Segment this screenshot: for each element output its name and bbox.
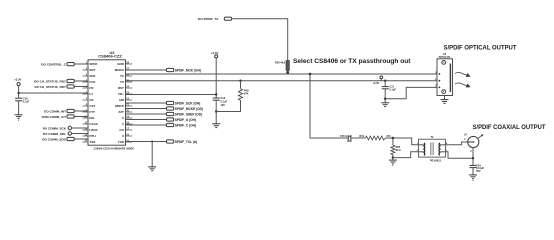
IC U2 CS8406 body bbox=[88, 50, 134, 151]
svg-text:GND: GND bbox=[117, 62, 125, 66]
svg-text:DNI: DNI bbox=[347, 140, 352, 143]
wire bbox=[74, 110, 88, 112]
svg-text:374: 374 bbox=[386, 135, 391, 138]
wire bbox=[74, 116, 88, 118]
connector SPDIF_SCK bbox=[126, 101, 201, 105]
wire bbox=[72, 133, 89, 135]
svg-text:LRCK: LRCK bbox=[89, 128, 98, 132]
resistor R54 374 series bbox=[359, 135, 391, 140]
connector RX CH_STATUS_RDY bbox=[34, 85, 74, 89]
U2 left pin numbers bbox=[84, 62, 87, 143]
wire R49 bottom to node B bbox=[216, 100, 240, 111]
svg-text:HM: HM bbox=[119, 98, 124, 102]
wire bbox=[72, 127, 89, 129]
wire bbox=[74, 86, 88, 88]
wire R49 top lead bbox=[240, 81, 242, 89]
svg-text:DO COMM_INT: DO COMM_INT bbox=[44, 109, 66, 113]
ground coax divider bbox=[389, 160, 397, 166]
wire main TX net bbox=[126, 73, 438, 75]
U4 pin numbers bbox=[435, 72, 437, 87]
wire U2 VD+ to node A bbox=[126, 94, 217, 96]
svg-text:DUM COMM_A/T: DUM COMM_A/T bbox=[42, 115, 67, 119]
wire U2 to R49 bbox=[126, 80, 438, 82]
node passthrough join bbox=[286, 71, 289, 74]
wire RCA shield down bbox=[472, 148, 474, 166]
node return join bbox=[384, 98, 386, 100]
connector SPDIF_C bbox=[126, 123, 196, 127]
svg-text:+3.3V: +3.3V bbox=[211, 51, 219, 55]
ground mid rail bbox=[212, 124, 220, 128]
svg-text:CALB: CALB bbox=[89, 122, 98, 126]
power +3.3V left rail bbox=[14, 77, 21, 85]
svg-text:SPDIF_SCK (OH): SPDIF_SCK (OH) bbox=[175, 101, 201, 105]
U2 right pin stubs bbox=[126, 64, 133, 142]
U2 right pin names bbox=[115, 62, 125, 144]
wire VL+ to U2 bbox=[19, 92, 88, 94]
svg-text:CS8406-CZZ: CS8406-CZZ bbox=[98, 54, 122, 59]
ground coax output bbox=[469, 175, 477, 181]
svg-text:TX: TX bbox=[120, 74, 124, 78]
wire U4 pin 2 return bbox=[385, 87, 437, 98]
connector SPDIF_SDEF bbox=[126, 112, 203, 116]
svg-text:0.1uF: 0.1uF bbox=[220, 100, 227, 104]
transformer T2 PE-65612 bbox=[417, 136, 448, 162]
ground left rail bbox=[15, 115, 23, 120]
capacitor C4 0.1uF bbox=[15, 98, 30, 115]
svg-text:SPDIF_C (OH): SPDIF_C (OH) bbox=[175, 123, 196, 127]
svg-text:Select CS8406 or TX passthroug: Select CS8406 or TX passthrough out bbox=[293, 58, 411, 65]
svg-text:+3.3V: +3.3V bbox=[373, 82, 380, 85]
svg-text:INA: INA bbox=[89, 116, 95, 120]
svg-text:0.1uF: 0.1uF bbox=[389, 89, 396, 92]
wire R55 to ground bbox=[392, 155, 394, 160]
svg-text:RX CH_STATUS_RDY: RX CH_STATUS_RDY bbox=[34, 85, 66, 89]
light emission arrows bbox=[455, 72, 470, 87]
connector SPDIF_MCKE bbox=[126, 107, 204, 111]
connector DO COMM_INT bbox=[44, 109, 74, 113]
node ground tap bbox=[151, 141, 153, 143]
node R49 tap bbox=[239, 80, 241, 82]
svg-text:SFR: SFR bbox=[89, 74, 96, 78]
wire down to R55 bbox=[392, 138, 394, 145]
connector SPDIF_MCK bbox=[126, 68, 201, 72]
node B resistor return bbox=[215, 110, 217, 112]
connector DO CH_STATUS_RDY bbox=[34, 79, 74, 83]
svg-text:ZZT: ZZT bbox=[118, 110, 124, 114]
U2 left pin stubs bbox=[82, 64, 88, 142]
svg-text:MCKO: MCKO bbox=[115, 68, 125, 72]
svg-text:DO COMM_SDO: DO COMM_SDO bbox=[42, 137, 66, 141]
U4 pin marks inside bbox=[439, 73, 441, 88]
svg-text:DO SPDIF_TX: DO SPDIF_TX bbox=[198, 17, 219, 21]
svg-text:90.9: 90.9 bbox=[396, 149, 401, 152]
wire bbox=[386, 137, 393, 139]
node TX branch to coax bbox=[309, 73, 312, 76]
svg-text:F1: F1 bbox=[89, 92, 93, 96]
wire mid rail down to node A bbox=[215, 58, 217, 98]
svg-text:CO: CO bbox=[119, 128, 124, 132]
capacitor C54 0.01uF bbox=[470, 164, 485, 175]
svg-text:R50 49.9: R50 49.9 bbox=[275, 62, 286, 65]
svg-text:DO CONTROL_C: DO CONTROL_C bbox=[41, 62, 67, 66]
ground optical bbox=[381, 103, 389, 107]
svg-text:+3.3V: +3.3V bbox=[14, 77, 21, 81]
U2 left pin names bbox=[89, 62, 98, 144]
svg-text:S/PDIF OPTICAL OUTPUT: S/PDIF OPTICAL OUTPUT bbox=[444, 44, 517, 51]
wire bbox=[351, 137, 366, 139]
svg-text:RTLI: RTLI bbox=[89, 134, 96, 138]
wire bbox=[74, 138, 88, 140]
node coax divider bbox=[392, 137, 395, 140]
svg-text:R54: R54 bbox=[359, 135, 364, 138]
svg-text:RST: RST bbox=[118, 86, 124, 90]
svg-text:SPI/O: SPI/O bbox=[89, 62, 98, 66]
node cap tap bbox=[384, 80, 386, 82]
svg-text:SPDIF_MCK (OH): SPDIF_MCK (OH) bbox=[175, 68, 201, 72]
capacitor C21 0.1uF bbox=[382, 81, 397, 103]
wire down to ground bbox=[151, 142, 153, 167]
svg-text:50V: 50V bbox=[476, 170, 481, 173]
resistor R50 0 ohm bbox=[275, 61, 289, 75]
wire bbox=[74, 80, 88, 82]
svg-text:PE-65612: PE-65612 bbox=[430, 160, 442, 163]
U2 right pin numbers bbox=[126, 62, 129, 143]
svg-text:TXB: TXB bbox=[89, 140, 96, 144]
svg-text:HMCK: HMCK bbox=[115, 104, 125, 108]
optical transmitter U4 TOTX147 bbox=[437, 53, 453, 96]
wire transformer to RCA bbox=[445, 142, 467, 145]
resistor R49 47K bbox=[238, 88, 249, 100]
svg-text:TX: TX bbox=[120, 80, 124, 84]
connector DO CONTROL_C bbox=[41, 62, 74, 66]
svg-text:VD+: VD+ bbox=[118, 92, 124, 96]
svg-text:DO CH_STATUS_RDY: DO CH_STATUS_RDY bbox=[34, 79, 67, 83]
wire U2 TXN out bbox=[126, 141, 167, 143]
power +3.3V optical bbox=[373, 76, 383, 85]
capacitor C16 0.1uF bbox=[213, 96, 228, 124]
connector DO SPDIF_TX passthrough input bbox=[198, 17, 232, 21]
svg-text:SPDIF_U (OH): SPDIF_U (OH) bbox=[175, 118, 196, 122]
wire to transformer primary bbox=[393, 138, 419, 145]
connector SPDIF_U bbox=[126, 118, 196, 122]
svg-text:RX COMM_SCK: RX COMM_SCK bbox=[43, 126, 67, 130]
node A bbox=[215, 93, 217, 95]
svg-text:X: X bbox=[122, 134, 124, 138]
svg-text:SPDIF_MCKE (OD): SPDIF_MCKE (OD) bbox=[175, 107, 203, 111]
ground U4 bbox=[441, 96, 449, 104]
svg-text:0.1uF: 0.1uF bbox=[23, 101, 30, 104]
svg-text:SPDIF_SDEF (OD): SPDIF_SDEF (OD) bbox=[175, 112, 202, 116]
wire passthrough down bbox=[231, 19, 288, 61]
svg-text:CXT: CXT bbox=[89, 104, 95, 108]
resistor R55 90.9 shunt bbox=[391, 145, 401, 155]
svg-text:RX COMM_SDL: RX COMM_SDL bbox=[43, 132, 66, 136]
svg-text:47K: 47K bbox=[244, 91, 249, 95]
svg-text:SPDIF_TXL (A): SPDIF_TXL (A) bbox=[175, 140, 197, 144]
capacitor C55 0.1uF series bbox=[340, 135, 352, 143]
power +3.3V mid rail bbox=[211, 51, 219, 58]
RCA jack J4 bbox=[464, 134, 484, 153]
ground chip bottom bbox=[148, 167, 156, 171]
svg-text:16V: 16V bbox=[220, 103, 225, 107]
wire coax branch down bbox=[310, 74, 348, 138]
svg-text:CS8406-CZZ/S+HARDWARE_MODE: CS8406-CZZ/S+HARDWARE_MODE bbox=[94, 148, 135, 151]
connector DUM COMM_A/T bbox=[42, 115, 75, 119]
connector RX COMM_SCK bbox=[43, 126, 72, 130]
node VL+ tap bbox=[17, 92, 19, 94]
svg-text:SDT: SDT bbox=[89, 68, 95, 72]
svg-text:TXN: TXN bbox=[118, 140, 124, 144]
svg-text:S/PDIF COAXIAL OUTPUT: S/PDIF COAXIAL OUTPUT bbox=[473, 124, 546, 131]
connector RX COMM_SDL bbox=[43, 132, 71, 136]
svg-text:U: U bbox=[122, 116, 124, 120]
svg-text:C55 0.1uF: C55 0.1uF bbox=[340, 135, 352, 138]
wire transformer pin3 to shield bbox=[445, 152, 473, 158]
svg-text:V: V bbox=[122, 122, 124, 126]
node shield join bbox=[472, 157, 474, 159]
svg-text:C16: C16 bbox=[220, 96, 225, 100]
wire transformer secondary return bbox=[393, 152, 419, 158]
svg-text:FCK: FCK bbox=[89, 80, 96, 84]
node transformer return join bbox=[392, 156, 394, 158]
connector SPDIF_TXL bbox=[167, 140, 198, 144]
svg-text:FTT: FTT bbox=[89, 110, 95, 114]
connector DO COMM_SDO bbox=[42, 137, 74, 141]
wire bbox=[74, 63, 88, 65]
wire left rail down bbox=[18, 86, 20, 99]
